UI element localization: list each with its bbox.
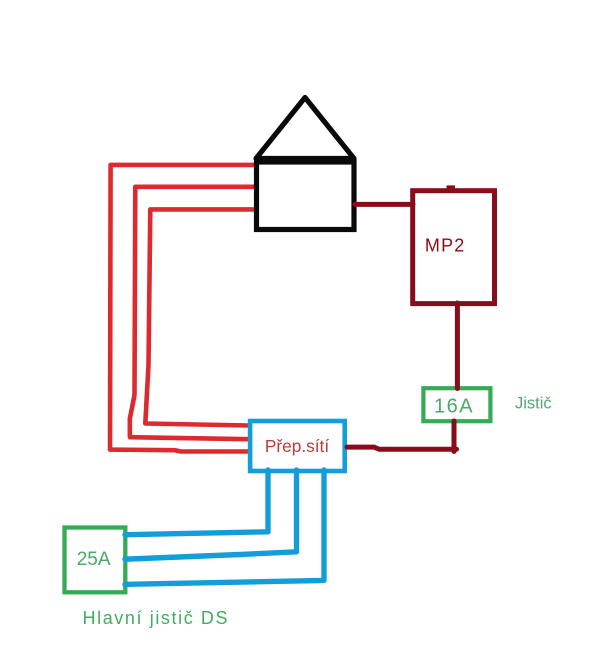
- breaker box 25A: [65, 528, 126, 593]
- wire 16A down stub (dark red): [452, 421, 457, 452]
- surge protector box Přep.sítí: [250, 421, 345, 471]
- meter box MP2: [413, 191, 495, 304]
- house roof: [256, 98, 354, 159]
- wire L1 (red outer: house to Přep.sítí): [110, 165, 256, 452]
- wire MP2 to 16A (dark red): [455, 303, 460, 389]
- svg-text:Přep.sítí: Přep.sítí: [265, 436, 330, 456]
- wire blue 3 (Přep.sítí to 25A): [125, 470, 324, 584]
- wire L3 (red inner: house to Přep.sítí): [145, 209, 256, 425]
- wire L2 (red middle: house to Přep.sítí): [130, 187, 256, 439]
- svg-text:MP2: MP2: [425, 236, 466, 256]
- svg-text:Jistič: Jistič: [515, 395, 552, 413]
- breaker box 16A: [423, 388, 490, 421]
- svg-text:Hlavní jistič DS: Hlavní jistič DS: [83, 608, 230, 628]
- stub on top of MP2: [447, 185, 456, 189]
- svg-text:16A: 16A: [434, 395, 474, 417]
- wire blue 2 (Přep.sítí to 25A): [125, 470, 297, 559]
- wire 16A junction to Přep.sítí (dark red): [347, 447, 457, 449]
- wire house to MP2 (dark red): [355, 202, 413, 207]
- wire blue 1 (Přep.sítí to 25A): [125, 470, 268, 535]
- svg-text:25A: 25A: [77, 549, 111, 570]
- house body: [257, 162, 355, 230]
